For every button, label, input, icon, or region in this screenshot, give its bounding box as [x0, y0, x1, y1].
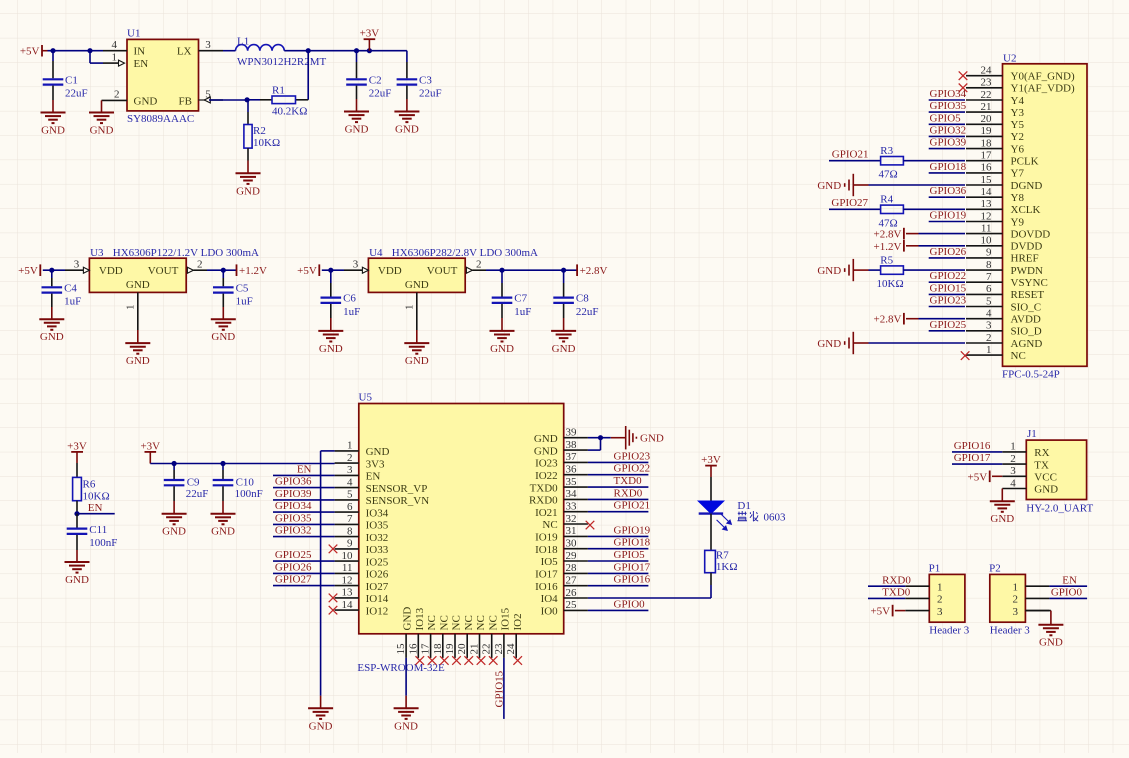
U5 pin 31 (IO19): [535, 525, 588, 543]
svg-text:47Ω: 47Ω: [879, 217, 898, 229]
U2 pin 9 (HREF): [966, 247, 1039, 265]
U5 pin 25 (IO0): [541, 599, 588, 617]
svg-text:10KΩ: 10KΩ: [253, 137, 280, 149]
power port +5V (U1 input): [20, 45, 48, 58]
U3 pin 1 (GND): [125, 292, 138, 343]
net label EN: [88, 502, 103, 514]
U5 pin 19 (NC): [444, 615, 463, 658]
wire EN from P2 pin 1: [1049, 585, 1087, 587]
svg-text:17: 17: [981, 150, 993, 162]
wire net GPIO0 from U5 pin 25: [588, 609, 649, 611]
U5 pin 26 (IO4): [541, 587, 588, 605]
U2 pin 22 (Y4): [966, 89, 1024, 107]
wire net GPIO35 to U5 pin 7: [273, 523, 335, 525]
U5 pin 7 (IO35): [335, 513, 389, 531]
svg-text:7: 7: [347, 513, 353, 525]
no-connect cross U5 pin 9: [329, 545, 338, 554]
svg-text:GPIO19: GPIO19: [614, 524, 651, 536]
svg-text:PCLK: PCLK: [1011, 156, 1039, 168]
U5 pin 29 (IO5): [541, 550, 588, 568]
U5 pin 30 (IO18): [535, 538, 588, 556]
U2 pin 19 (Y2): [966, 125, 1024, 143]
svg-text:15: 15: [395, 643, 407, 655]
wire +5V to U3: [43, 269, 65, 271]
no-connect cross U5 pin 18: [440, 656, 449, 665]
svg-text:1uF: 1uF: [236, 296, 253, 308]
svg-text:GND: GND: [319, 343, 343, 355]
svg-text:NC: NC: [438, 615, 450, 630]
U2 pin 23 (Y1(AF_VDD)): [966, 77, 1075, 95]
svg-text:1: 1: [347, 440, 353, 452]
net label GPIO27 (U5 pin 12): [275, 574, 312, 586]
svg-text:2: 2: [114, 89, 120, 101]
no-connect cross U5 pin 20: [464, 656, 473, 665]
svg-text:IO33: IO33: [366, 544, 389, 556]
svg-text:J1: J1: [1027, 428, 1037, 440]
wire EN branch: [90, 51, 103, 63]
svg-text:IO13: IO13: [414, 607, 426, 630]
ground (U5 pins 38/39): [626, 426, 664, 449]
ground (U4): [404, 343, 429, 367]
P1 pin 3: [905, 606, 943, 618]
svg-text:U5: U5: [359, 392, 373, 404]
svg-text:SIO_D: SIO_D: [1011, 326, 1042, 338]
U5 pin 23 (IO15): [493, 607, 512, 658]
power port +5V (P1): [870, 605, 892, 618]
svg-text:IN: IN: [134, 46, 146, 58]
power port +2.8V (U4 output): [577, 264, 607, 277]
svg-text:GND: GND: [1034, 484, 1058, 496]
svg-text:GPIO25: GPIO25: [275, 549, 312, 561]
wire net GPIO16 from U5 pin 27: [588, 585, 649, 587]
svg-text:GPIO15: GPIO15: [493, 670, 505, 707]
wire R4 to U2 pin 13: [903, 208, 965, 210]
net label TXD0: [882, 587, 911, 599]
ground (C10): [211, 514, 236, 538]
svg-text:Header 3: Header 3: [929, 625, 970, 637]
net label GPIO27: [831, 197, 868, 209]
svg-text:14: 14: [342, 599, 354, 611]
power port +5V (J1): [968, 471, 990, 484]
U2 pin 14 (Y8): [966, 186, 1024, 204]
U5 pin 5 (SENSOR_VN): [335, 489, 430, 507]
svg-text:IO19: IO19: [535, 532, 558, 544]
svg-text:20: 20: [456, 643, 468, 655]
net label GPIO36: [930, 185, 967, 197]
wire U5 pin 23 GPIO15: [503, 658, 505, 719]
svg-text:LX: LX: [177, 46, 192, 58]
svg-text:36: 36: [566, 464, 578, 476]
resistor R3: [879, 145, 904, 181]
U5 pin 35 (TXD0): [530, 476, 588, 494]
net label GPIO16: [954, 440, 991, 452]
U2 pin 20 (Y5): [966, 113, 1024, 131]
svg-text:U4: U4: [369, 247, 383, 259]
svg-text:SENSOR_VP: SENSOR_VP: [366, 483, 428, 495]
U1 pin 5 (FB): [199, 88, 224, 103]
svg-text:Y5: Y5: [1011, 119, 1025, 131]
svg-text:U2: U2: [1003, 52, 1016, 64]
svg-text:GND: GND: [405, 355, 429, 367]
svg-text:4: 4: [112, 39, 118, 51]
wire VOUT to +1.2V: [223, 269, 236, 271]
wire net GPIO39 to U2 pin 18: [929, 148, 965, 150]
net label EN (U5 pin 3): [297, 463, 312, 475]
svg-text:100nF: 100nF: [235, 488, 263, 500]
svg-text:37: 37: [566, 451, 578, 463]
svg-text:RXD0: RXD0: [529, 495, 558, 507]
svg-text:+5V: +5V: [18, 265, 38, 277]
svg-text:+3V: +3V: [360, 28, 380, 40]
J1 pin 4 (GND): [1002, 477, 1058, 495]
svg-text:TXD0: TXD0: [614, 475, 643, 487]
ground (C11): [65, 562, 90, 586]
svg-text:Y1(AF_VDD): Y1(AF_VDD): [1011, 83, 1076, 95]
svg-text:SY8089AAAC: SY8089AAAC: [127, 113, 194, 125]
U5 pin 1 (GND): [335, 440, 390, 458]
svg-text:1KΩ: 1KΩ: [716, 561, 738, 573]
ground (J1): [990, 501, 1015, 525]
svg-text:GPIO18: GPIO18: [930, 161, 967, 173]
svg-text:10KΩ: 10KΩ: [877, 278, 904, 290]
wire EN stub: [77, 513, 115, 515]
wire net GPIO5 from U5 pin 29: [588, 560, 649, 562]
connector U2 FPC body: [1002, 52, 1087, 380]
svg-text:22: 22: [981, 89, 992, 101]
svg-text:1: 1: [125, 305, 137, 311]
wire GPIO17 to J1 pin 2: [952, 463, 1002, 465]
U5 pin 15 (GND): [395, 607, 414, 658]
ground (C1): [41, 113, 66, 137]
svg-text:ESP-WROOM-32E: ESP-WROOM-32E: [357, 662, 445, 674]
svg-text:30: 30: [566, 538, 578, 550]
svg-text:8: 8: [347, 525, 353, 537]
U1 pin 2 (GND): [102, 89, 128, 113]
net label GPIO18 (U5 pin 30): [614, 537, 651, 549]
svg-text:+3V: +3V: [701, 454, 721, 466]
svg-text:GND: GND: [534, 433, 558, 445]
svg-text:GPIO32: GPIO32: [275, 525, 312, 537]
net label GPIO23: [930, 295, 967, 307]
svg-text:EN: EN: [297, 463, 312, 475]
svg-text:GND: GND: [65, 574, 89, 586]
capacitor C4: [42, 270, 82, 319]
U5 pin 20 (NC): [456, 615, 475, 658]
svg-text:IO25: IO25: [366, 556, 389, 568]
power port +3V (buck output): [360, 28, 380, 51]
net label GPIO36 (U5 pin 4): [275, 476, 312, 488]
net label GPIO26 (U5 pin 11): [275, 561, 312, 573]
svg-text:GPIO5: GPIO5: [614, 549, 646, 561]
svg-text:GPIO35: GPIO35: [275, 512, 312, 524]
svg-text:C11: C11: [89, 524, 107, 536]
ground (C5): [211, 319, 236, 343]
ground (U2 pin 15): [817, 174, 853, 196]
svg-text:26: 26: [566, 587, 578, 599]
U5 pin 39 (GND): [534, 427, 588, 445]
no-connect cross U5 pin 16: [416, 656, 425, 665]
svg-text:GND: GND: [134, 95, 158, 107]
svg-text:GPIO16: GPIO16: [954, 440, 991, 452]
svg-text:GND: GND: [817, 265, 841, 277]
ground (C6): [318, 331, 343, 355]
svg-text:GPIO5: GPIO5: [930, 112, 962, 124]
wire net GPIO22 to U2 pin 7: [929, 281, 965, 283]
svg-text:GND: GND: [552, 343, 576, 355]
wire +5V to J1 pin 3: [992, 475, 1002, 477]
svg-text:23: 23: [981, 77, 993, 89]
net label GPIO19: [930, 210, 967, 222]
wire net GPIO18 to U2 pin 16: [929, 172, 965, 174]
svg-text:3: 3: [1010, 465, 1016, 477]
svg-text:5: 5: [986, 295, 992, 307]
svg-text:WPN3012H2R2MT: WPN3012H2R2MT: [237, 56, 327, 68]
svg-text:9: 9: [347, 538, 353, 550]
svg-text:GPIO27: GPIO27: [275, 574, 312, 586]
capacitor C6: [321, 270, 361, 331]
svg-text:GND: GND: [402, 607, 414, 631]
svg-text:+2.8V: +2.8V: [580, 265, 608, 277]
svg-text:0603: 0603: [764, 512, 787, 524]
svg-text:IO22: IO22: [535, 470, 558, 482]
svg-text:Y3: Y3: [1011, 107, 1025, 119]
svg-text:28: 28: [566, 562, 578, 574]
no-connect cross U5 pin 22: [489, 656, 498, 665]
ground (C9): [162, 514, 187, 538]
no-connect cross U5 pin 32: [586, 521, 595, 530]
ground (P2): [1038, 625, 1063, 649]
svg-text:3: 3: [353, 259, 359, 271]
svg-text:Y6: Y6: [1011, 143, 1025, 155]
svg-text:GND: GND: [817, 338, 841, 350]
svg-text:GND: GND: [236, 185, 260, 197]
node +5V junction at C1: [50, 48, 55, 53]
node C2 junction: [354, 48, 359, 53]
svg-text:9: 9: [986, 247, 992, 259]
svg-text:L1: L1: [237, 36, 249, 48]
no-connect cross U5 pin 17: [428, 656, 437, 665]
svg-text:C5: C5: [236, 282, 249, 294]
P1 pin 1: [905, 581, 942, 593]
svg-text:VCC: VCC: [1034, 472, 1057, 484]
wire net GPIO34 to U5 pin 6: [273, 511, 335, 513]
svg-text:22uF: 22uF: [186, 488, 209, 500]
svg-text:34: 34: [566, 488, 578, 500]
U5 pin 34 (RXD0): [529, 488, 588, 506]
svg-text:2: 2: [1013, 594, 1019, 606]
svg-text:SIO_C: SIO_C: [1011, 301, 1042, 313]
svg-text:EN: EN: [134, 58, 149, 70]
svg-text:1: 1: [112, 51, 118, 63]
U2 pin 2 (AGND): [966, 332, 1042, 350]
ground (U5 pin 15): [394, 708, 419, 732]
svg-text:18: 18: [981, 137, 993, 149]
svg-text:IO23: IO23: [535, 458, 558, 470]
svg-text:VSYNC: VSYNC: [1011, 277, 1048, 289]
wire RXD0 to P1 pin 1: [868, 585, 905, 587]
node +5V junction at C4: [49, 268, 54, 273]
no-connect cross U5 pin 21: [477, 656, 486, 665]
net label GPIO26: [930, 246, 967, 258]
svg-text:10: 10: [342, 550, 354, 562]
wire +2.8V to U2 pin 11: [906, 233, 965, 235]
net label GPIO17 (U5 pin 28): [614, 561, 651, 573]
svg-text:4: 4: [1010, 477, 1016, 489]
U5 pin 18 (NC): [432, 615, 451, 658]
svg-text:EN: EN: [1062, 574, 1077, 586]
capacitor C11: [67, 514, 118, 562]
wire R5 to U2 pin 8: [903, 269, 965, 271]
svg-text:+5V: +5V: [20, 46, 40, 58]
U5 pin 14 (IO12): [335, 599, 389, 618]
svg-text:GPIO26: GPIO26: [930, 246, 967, 258]
wire net GPIO32 to U5 pin 8: [273, 536, 335, 538]
svg-text:RESET: RESET: [1011, 289, 1045, 301]
svg-text:NC: NC: [487, 615, 499, 630]
svg-text:GPIO34: GPIO34: [930, 88, 967, 100]
svg-text:13: 13: [981, 198, 993, 210]
capacitor C10: [213, 464, 263, 514]
svg-text:22: 22: [481, 644, 493, 655]
wire net GPIO27 to U5 pin 12: [273, 585, 335, 587]
connector P1 header body: [929, 562, 970, 636]
wire net GPIO18 from U5 pin 30: [588, 548, 649, 550]
svg-text:GND: GND: [309, 720, 333, 732]
svg-text:+3V: +3V: [67, 440, 87, 452]
U5 pin 28 (IO17): [535, 562, 588, 580]
svg-text:3: 3: [1013, 606, 1019, 618]
wire net TXD0 from U5 pin 35: [588, 486, 649, 488]
U3 pin 3 (VDD): [65, 259, 89, 274]
wire GPIO0 from P2 pin 2: [1049, 597, 1087, 599]
wire net GPIO17 from U5 pin 28: [588, 572, 649, 574]
node VOUT junction at C5: [221, 268, 226, 273]
wire GND to R5: [853, 269, 880, 271]
svg-text:100nF: 100nF: [89, 537, 117, 549]
svg-text:17: 17: [420, 643, 432, 655]
capacitor C2: [346, 51, 391, 112]
svg-text:GPIO0: GPIO0: [614, 598, 646, 610]
wire +3V rail to U5 pin 2: [150, 463, 334, 465]
svg-text:FPC-0.5-24P: FPC-0.5-24P: [1002, 369, 1060, 381]
resistor R6: [73, 463, 110, 514]
svg-text:GPIO0: GPIO0: [1051, 587, 1083, 599]
svg-text:16: 16: [981, 162, 993, 174]
ground (C3): [394, 112, 419, 136]
svg-text:15: 15: [981, 174, 993, 186]
ground (R2): [236, 173, 261, 197]
svg-text:+2.8V: +2.8V: [873, 314, 901, 326]
svg-text:GND: GND: [126, 279, 150, 291]
svg-text:7: 7: [986, 271, 992, 283]
wire net GPIO36 to U5 pin 4: [273, 487, 335, 489]
wire net GPIO25 to U5 pin 10: [273, 560, 335, 562]
P1 pin 2: [905, 594, 942, 606]
svg-text:11: 11: [981, 222, 992, 234]
connector J1 UART body: [1026, 428, 1093, 515]
U2 pin 15 (DGND): [966, 174, 1042, 192]
net label GPIO23 (U5 pin 37): [614, 450, 651, 462]
svg-text:C9: C9: [187, 477, 200, 489]
svg-text:GND: GND: [490, 343, 514, 355]
svg-text:R6: R6: [83, 479, 96, 491]
svg-text:NC: NC: [475, 615, 487, 630]
svg-text:NC: NC: [1011, 350, 1026, 362]
svg-text:31: 31: [566, 525, 577, 537]
U2 pin 13 (XCLK): [966, 198, 1041, 216]
resistor R7: [705, 514, 738, 598]
svg-text:GPIO39: GPIO39: [275, 488, 312, 500]
svg-text:40.2KΩ: 40.2KΩ: [272, 105, 307, 117]
svg-text:3: 3: [74, 259, 80, 271]
resistor R1: [247, 51, 308, 118]
U1 pin names: [134, 46, 193, 108]
svg-text:+5V: +5V: [968, 471, 988, 483]
net label GPIO19 (U5 pin 31): [614, 524, 651, 536]
capacitor C1: [43, 51, 88, 113]
svg-text:+1.2V: +1.2V: [873, 241, 901, 253]
svg-text:23: 23: [493, 643, 505, 655]
wire U5 pin 1 GND: [321, 451, 335, 708]
D1 value label (blue LED 0603): [737, 511, 786, 524]
net label GPIO5 (U5 pin 29): [614, 549, 646, 561]
svg-text:18: 18: [432, 643, 444, 655]
U2 pin 5 (SIO_C): [966, 295, 1041, 313]
svg-text:GND: GND: [534, 445, 558, 457]
wire GND to U2 pin 2: [853, 342, 965, 344]
svg-text:IO17: IO17: [535, 569, 558, 581]
node VOUT junction at C7: [499, 268, 504, 273]
svg-text:AVDD: AVDD: [1011, 314, 1041, 326]
U2 pin 10 (DVDD): [966, 235, 1042, 253]
svg-text:Y9: Y9: [1011, 216, 1025, 228]
svg-text:AGND: AGND: [1011, 338, 1043, 350]
svg-text:GND: GND: [640, 433, 664, 445]
svg-text:3: 3: [205, 39, 211, 51]
svg-text:GPIO36: GPIO36: [275, 476, 312, 488]
U5 pin 10 (IO25): [335, 550, 389, 569]
U5 pin 9 (IO33): [335, 538, 389, 556]
svg-text:39: 39: [566, 427, 578, 439]
U5 pin 11 (IO26): [335, 562, 389, 580]
svg-text:1: 1: [1013, 581, 1019, 593]
U5 pin 2 (3V3): [335, 452, 385, 470]
svg-text:GND: GND: [345, 124, 369, 136]
wire +5V to P1 pin 3: [895, 610, 905, 612]
no-connect cross U5 pin 13: [329, 594, 338, 603]
P2 pin 1: [1013, 581, 1050, 593]
power port +2.8V (U2 pin 4): [873, 313, 903, 326]
svg-text:1: 1: [937, 581, 943, 593]
P2 pin 2: [1013, 594, 1050, 606]
svg-text:GPIO16: GPIO16: [614, 574, 651, 586]
svg-text:C8: C8: [576, 293, 589, 305]
svg-text:GPIO35: GPIO35: [930, 100, 967, 112]
node +3V junction at C9: [172, 461, 177, 466]
U5 pin 32 (NC): [542, 513, 587, 531]
svg-text:21: 21: [469, 644, 481, 655]
wire net GPIO19 from U5 pin 31: [588, 535, 649, 537]
svg-text:IO0: IO0: [541, 606, 559, 618]
svg-text:HX6306P122/1.2V LDO 300mA: HX6306P122/1.2V LDO 300mA: [113, 247, 259, 259]
svg-text:GPIO22: GPIO22: [930, 270, 967, 282]
svg-text:22uF: 22uF: [369, 88, 392, 100]
capacitor C3: [397, 51, 442, 112]
wire net GPIO23 to U2 pin 5: [929, 306, 965, 308]
node +5V junction at C6: [328, 268, 333, 273]
net label GPIO18: [930, 161, 967, 173]
svg-text:2: 2: [937, 594, 943, 606]
